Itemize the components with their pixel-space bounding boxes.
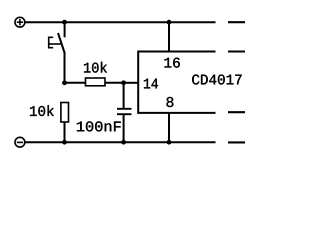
switch arm — [58, 33, 65, 54]
wire top rail continuation dash — [228, 21, 245, 23]
node junction switch / resistors — [62, 80, 67, 85]
resistor 10k vertical body — [61, 103, 69, 123]
node junction top rail / switch — [62, 20, 67, 25]
terminal - (negative supply) — [15, 137, 25, 147]
wire vertical resistor to bottom rail — [64, 122, 66, 142]
capacitor C1 100nF — [117, 83, 132, 142]
box bottom edge — [138, 112, 215, 114]
switch actuator button — [49, 37, 62, 49]
wire top supply rail — [25, 21, 215, 23]
pin label 14 — [144, 79, 158, 89]
wire switch top stub — [64, 22, 66, 37]
wire bottom supply rail — [25, 141, 215, 143]
pin label 16 — [164, 58, 179, 68]
wire resistor to capacitor node — [105, 82, 124, 84]
wire pin 8 stub — [168, 113, 170, 142]
wire pin 14 — [124, 82, 139, 84]
box left edge — [137, 51, 139, 114]
label 100nF — [77, 121, 121, 131]
label 10k (horizontal resistor) — [84, 62, 107, 73]
wire bottom rail continuation dash — [228, 141, 245, 143]
wire capacitor top — [123, 83, 125, 108]
box top edge continuation dash — [228, 50, 245, 52]
wire to horizontal resistor — [65, 82, 86, 84]
wire switch bottom — [64, 53, 66, 83]
node junction bottom rail / resistor — [62, 140, 67, 145]
wire capacitor bottom — [123, 115, 125, 142]
label CD4017 — [192, 74, 241, 84]
resistor 10k horizontal body — [86, 78, 106, 86]
node junction top rail / pin 16 — [167, 20, 172, 25]
box top edge — [138, 51, 215, 53]
pin label 8 — [166, 97, 173, 107]
switch S1 pushbutton — [58, 22, 65, 83]
terminal + (positive supply) — [15, 17, 25, 27]
label 10k (vertical resistor) — [30, 105, 54, 116]
wire pin 16 stub — [168, 22, 170, 51]
node junction bottom rail / pin 8 — [167, 140, 172, 145]
IC U1 CD4017 box — [138, 51, 215, 114]
node junction bottom rail / capacitor — [121, 140, 126, 145]
node junction resistor / capacitor / pin 14 — [121, 80, 126, 85]
capacitor top plate — [117, 108, 132, 110]
box bottom edge continuation dash — [228, 111, 245, 113]
capacitor bottom plate — [117, 113, 132, 115]
